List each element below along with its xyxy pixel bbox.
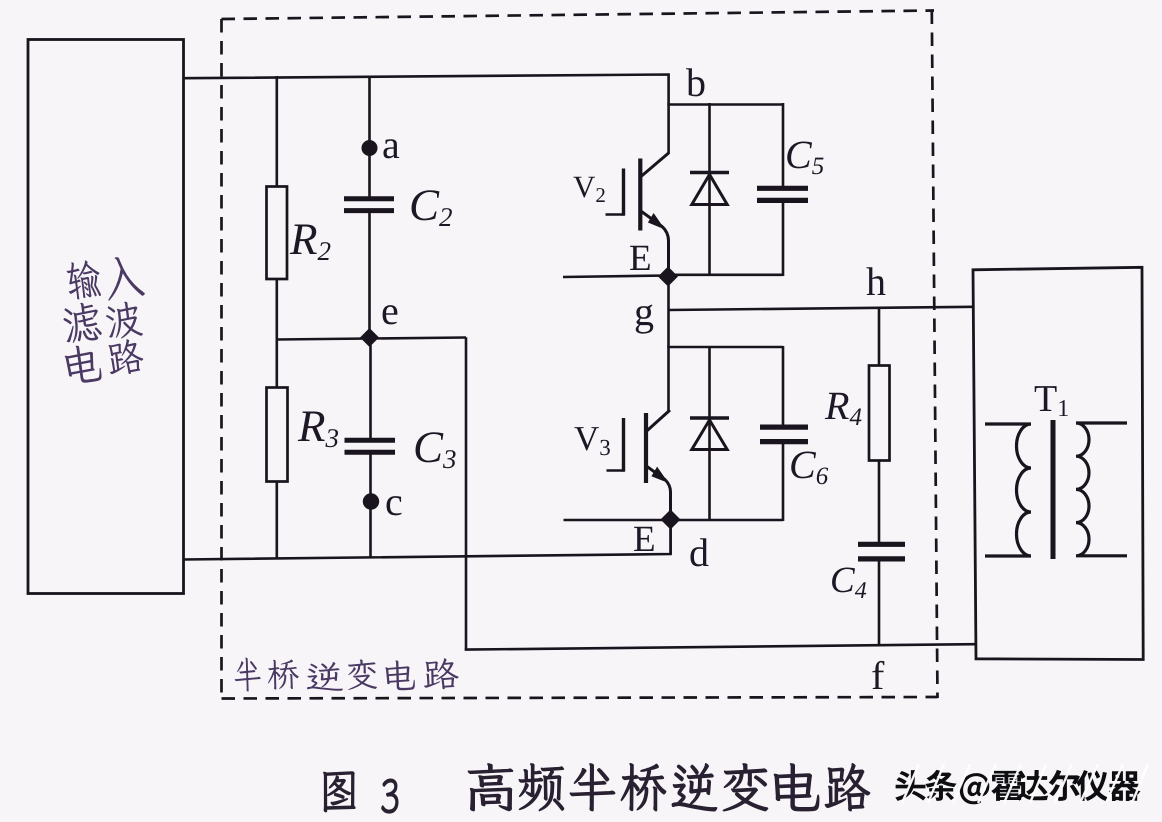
transistor V3 emitter arrow: [651, 467, 668, 483]
resistor R2: [267, 187, 288, 280]
transistor V2 gate lead: [606, 213, 624, 216]
svg-text:C6: C6: [789, 442, 829, 490]
wire R3 top lead: [275, 338, 278, 388]
wire V3 cell top branch: [667, 346, 783, 349]
wire R4 top lead: [878, 308, 881, 366]
diode D2 triangle: [692, 175, 727, 205]
transistor V2 body bar: [638, 159, 642, 231]
transistor V2 gate bar: [622, 169, 625, 216]
svg-text:d: d: [689, 530, 709, 575]
wire R3 bottom lead: [275, 482, 278, 560]
wire diode D3 vertical: [708, 346, 711, 521]
transformer T1 core: [1051, 420, 1056, 559]
wire C5 bottom lead: [782, 201, 785, 277]
svg-text:c: c: [385, 479, 403, 524]
wire b branch top: [667, 103, 783, 106]
svg-text:V2: V2: [573, 169, 606, 207]
wire V3 emitter lead E: [564, 519, 671, 522]
wire diode D2 vertical: [708, 103, 711, 276]
diode D3 triangle: [692, 420, 727, 450]
wire bottom rail from filter box to node d: [183, 519, 671, 560]
wire C2 bottom lead: [368, 212, 371, 339]
wire C3 bottom lead: [369, 452, 372, 558]
svg-text:g: g: [634, 289, 654, 334]
wire e to bottom (vertical): [465, 337, 468, 649]
input filter box text 输入滤波电路: [62, 254, 146, 385]
svg-text:E: E: [633, 519, 656, 560]
wire R4 to C4: [878, 460, 881, 545]
wire e branch horizontal: [276, 338, 466, 340]
wire R2 top lead: [275, 76, 278, 187]
transistor V3 gate lead: [607, 469, 624, 472]
capacitor C2: [344, 199, 394, 211]
input filter block (输入滤波电路): [28, 40, 184, 594]
transistor V3 gate bar: [622, 418, 625, 472]
svg-text:e: e: [381, 288, 399, 333]
diode D2 cathode bar: [690, 171, 729, 174]
watermark 头条@霍达尔仪器: [895, 764, 1148, 804]
transformer box: [973, 267, 1143, 659]
capacitor C4: [858, 544, 905, 559]
node e (diamond): [360, 328, 379, 347]
wire R2 bottom lead: [275, 279, 278, 340]
wire C4 bottom lead: [878, 559, 881, 646]
node c (dot): [363, 493, 379, 509]
svg-text:b: b: [686, 60, 706, 105]
svg-text:C5: C5: [785, 132, 824, 180]
transformer T1 primary winding: [985, 424, 1031, 556]
wire V3 cell bottom branch: [670, 519, 783, 522]
capacitor C3: [345, 440, 396, 452]
svg-text:R3: R3: [297, 401, 339, 453]
wire V2 cell bottom branch: [668, 273, 783, 276]
label 半桥逆变电路: [234, 657, 459, 692]
wire C6 top lead: [782, 346, 785, 427]
wire top rail from filter box to V2 collector: [183, 75, 669, 155]
svg-text:R2: R2: [289, 214, 331, 266]
dashed box (half-bridge inverter enclosure): [222, 11, 938, 699]
svg-text:E: E: [629, 238, 652, 279]
transformer T1 secondary winding: [1076, 423, 1127, 556]
svg-text:C2: C2: [409, 180, 453, 232]
svg-text:f: f: [871, 653, 885, 698]
transistor V3 collector slant: [647, 410, 670, 431]
svg-text:C4: C4: [830, 560, 867, 604]
wire V2 emitter lead E: [563, 276, 668, 278]
svg-text:C3: C3: [413, 422, 457, 474]
transistor V2 emitter arrow: [648, 213, 665, 230]
node E of V2 (diamond): [658, 267, 678, 287]
node a (dot): [362, 140, 378, 156]
wire bottom to f and T1: [465, 644, 975, 649]
wire C5 top lead: [782, 103, 785, 188]
svg-text:R4: R4: [824, 383, 862, 431]
wire node d drop: [669, 527, 672, 554]
resistor R3: [267, 388, 288, 482]
resistor R4: [869, 366, 890, 461]
wire C3 top lead: [369, 337, 372, 440]
diode D3 cathode bar: [690, 416, 729, 419]
wire V2 emitter to V3 collector (midpoint vertical): [667, 283, 670, 411]
svg-text:h: h: [866, 259, 886, 304]
transistor V2 collector slant: [641, 153, 669, 177]
transistor V3 emitter: [647, 467, 671, 513]
capacitor C6: [760, 427, 808, 442]
svg-text:a: a: [382, 122, 400, 167]
caption 图3 高频半桥逆变电路: [323, 763, 870, 813]
capacitor C5: [757, 188, 808, 200]
wire midpoint g/h horizontal: [669, 307, 974, 310]
svg-text:T1: T1: [1034, 378, 1069, 422]
transistor V3 body bar: [644, 413, 648, 483]
wire C2 top lead: [368, 76, 371, 197]
transistor V2 emitter: [642, 212, 669, 271]
wire C6 bottom lead: [782, 442, 785, 521]
svg-text:V3: V3: [574, 419, 611, 460]
node d / E of V3 (diamond): [661, 510, 681, 530]
